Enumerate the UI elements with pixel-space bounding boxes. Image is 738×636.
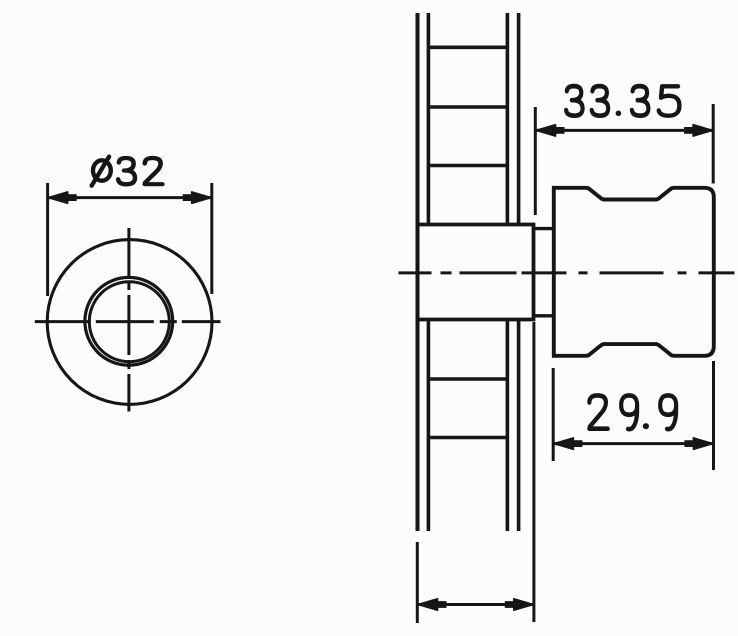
front view bore outer circle: [85, 277, 173, 365]
front view outer circle: [47, 240, 212, 405]
dim d32 extension line left: [46, 183, 49, 296]
dim d32 extension line right: [210, 183, 213, 294]
dim d32 arrow right: [192, 192, 212, 203]
dim text 29.9: [589, 395, 676, 429]
hub width extension line right: [532, 322, 535, 622]
dim 29.9 dimension line: [553, 442, 713, 445]
wheel rim outer-left line: [416, 13, 420, 531]
hub width arrow right: [514, 599, 534, 610]
spoke rung 3: [428, 164, 507, 168]
hub outline: [418, 225, 534, 320]
dim d32 dimension line: [48, 196, 212, 199]
neck bottom edge: [534, 314, 554, 317]
dim text 33.35: [566, 86, 679, 116]
centre mark horizontal: [35, 320, 221, 323]
dim text d32: [92, 157, 163, 186]
dim 33.35 dimension line: [535, 129, 713, 132]
spoke rung 5: [428, 436, 507, 440]
dim 29.9 arrow left: [554, 438, 574, 449]
hub width arrow left: [418, 599, 438, 610]
dim 29.9 arrow right: [693, 438, 713, 449]
wheel rim inner-right line: [506, 13, 510, 531]
spoke rung 2: [428, 105, 507, 109]
dim 33.35 arrow left: [536, 125, 556, 136]
dim 33.35 extension line left: [534, 107, 537, 215]
dim d32 arrow left: [48, 192, 67, 203]
dim 29.9 extension line left: [552, 368, 555, 461]
wheel rim outer-right line: [517, 13, 521, 531]
centre mark vertical: [127, 228, 130, 412]
roller grooved outline: [554, 188, 714, 356]
main centreline: [399, 271, 736, 274]
dim 33.35 arrow right: [693, 125, 713, 136]
dim 29.9 extension line right: [712, 361, 715, 470]
spoke rung 4: [428, 377, 507, 381]
wheel rim inner-left line: [427, 13, 431, 531]
neck top edge: [534, 227, 554, 230]
dim 33.35 extension line right: [712, 104, 715, 184]
front view bore inner circle: [89, 282, 169, 362]
spoke rung 1: [428, 45, 507, 49]
hub width extension line left: [416, 542, 419, 623]
hub width dimension line: [417, 603, 534, 606]
